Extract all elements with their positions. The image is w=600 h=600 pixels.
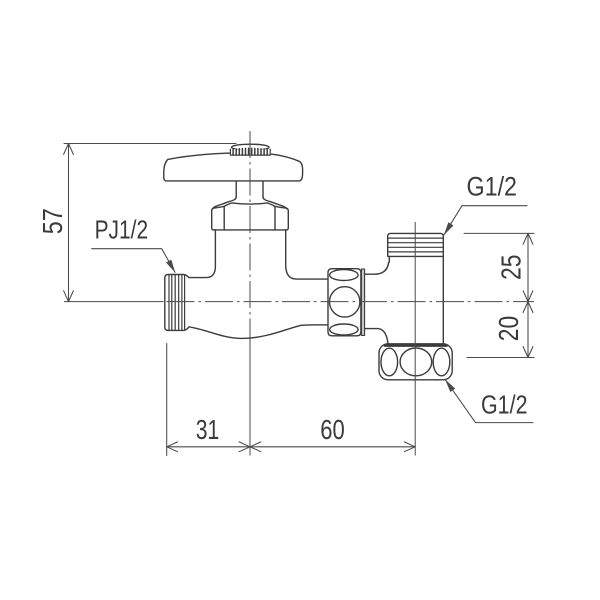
arrows at 250	[239, 442, 261, 452]
outlet nut G1/2	[379, 344, 452, 380]
union nut top chamfer ellipse	[330, 270, 358, 281]
knurl ticks	[233, 148, 267, 155]
svg-text:25: 25	[496, 255, 527, 281]
svg-text:60: 60	[320, 414, 345, 445]
vertical centerline valve axis	[249, 131, 251, 341]
dim 31-60 line	[167, 446, 416, 448]
horizontal centerline	[64, 301, 164, 303]
arrow left at 166.7	[167, 442, 178, 452]
dim 25 extension top	[464, 232, 534, 234]
handle	[164, 153, 303, 181]
dim 57 line	[68, 144, 70, 302]
thread lines right pipe	[388, 238, 444, 252]
arrows crossing at 301.6	[523, 291, 533, 313]
left thread PJ1/2	[165, 275, 189, 331]
union nut body	[328, 269, 361, 336]
dim 57 extension top	[64, 143, 236, 145]
arrow down at 357.5	[523, 347, 533, 358]
arrow up at 233	[523, 233, 533, 244]
outlet nut middle ellipse	[400, 348, 432, 376]
union nut bottom chamfer ellipse	[330, 324, 358, 335]
tube from union to right pipe	[365, 263, 389, 344]
svg-text:G1/2: G1/2	[467, 172, 518, 202]
leader G1/2 top	[444, 206, 527, 235]
centerlines	[64, 131, 534, 456]
arrow right at 414.7	[404, 442, 415, 452]
svg-text:57: 57	[37, 208, 68, 234]
hex face lines	[224, 207, 275, 230]
dim 57 arrow up	[64, 144, 74, 155]
leader PJ1/2	[92, 249, 175, 273]
right pipe walls	[389, 256, 443, 344]
bonnet hex nut	[212, 203, 289, 230]
svg-text:G1/2: G1/2	[481, 390, 528, 420]
outlet nut top band	[385, 344, 447, 347]
svg-text:PJ1/2: PJ1/2	[95, 214, 148, 244]
svg-text:31: 31	[196, 414, 220, 445]
vertical centerline right pipe	[414, 222, 416, 456]
outlet nut right ellipse	[433, 348, 450, 376]
valve body lower contour	[189, 325, 328, 339]
union nut right strip	[361, 269, 364, 335]
dim 57 arrow down	[64, 291, 74, 302]
union nut circle	[330, 287, 360, 317]
dim 31-60 extension left	[166, 344, 168, 456]
dimensions	[64, 144, 534, 456]
svg-text:20: 20	[493, 316, 524, 342]
leader G1/2 bottom	[445, 380, 533, 423]
bonnet bell	[212, 197, 286, 209]
handle stem	[236, 181, 263, 196]
thread crest lines	[169, 275, 185, 331]
outlet nut left ellipse	[381, 348, 398, 376]
valve body upper tube	[189, 230, 328, 279]
dim 25-20 line	[527, 233, 529, 357]
dim 20 extension bottom	[467, 357, 534, 359]
knurl band	[230, 149, 270, 155]
knurled cap dome	[232, 144, 270, 150]
right pipe threaded top G1/2	[388, 233, 444, 256]
